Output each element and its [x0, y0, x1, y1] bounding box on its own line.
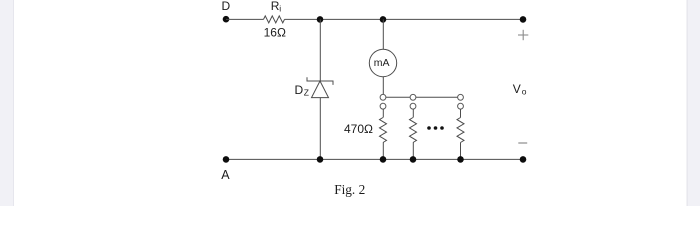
load resistor 1, 470 ohm — [344, 109, 387, 159]
svg-text:D: D — [222, 0, 231, 13]
svg-text:Fig. 2: Fig. 2 — [334, 182, 365, 197]
socket terminal 3 (bus) — [458, 94, 464, 100]
plug terminal 2 (load resistor top) — [410, 103, 416, 109]
svg-text:16Ω: 16Ω — [264, 25, 286, 39]
junction: bottom of load resistor 2 — [410, 156, 417, 163]
minus sign — [518, 142, 527, 144]
svg-text:o: o — [522, 87, 527, 97]
svg-text:mA: mA — [374, 57, 390, 69]
wire: meter branch upper segment — [382, 19, 384, 49]
wire top: resistor Ri to top-right terminal — [285, 18, 524, 20]
svg-text:D: D — [295, 83, 304, 97]
socket terminal 1 (bus) — [380, 94, 386, 100]
label Vo — [513, 82, 527, 97]
node D — [222, 0, 231, 22]
plus sign — [518, 30, 528, 40]
wire: zener branch upper segment — [319, 19, 321, 81]
junction: top of meter branch — [380, 16, 387, 23]
zener diode DZ — [295, 77, 334, 97]
ammeter mA — [369, 49, 396, 76]
junction: bottom of load resistor 1 — [380, 156, 387, 163]
svg-text:i: i — [279, 4, 281, 14]
load resistor 2 — [410, 109, 417, 159]
junction: bottom of load resistor n — [457, 156, 464, 163]
socket terminal 2 (bus) — [410, 94, 416, 100]
resistor Ri 16 ohm — [264, 0, 286, 39]
ellipsis between load resistors — [427, 126, 444, 130]
svg-text:Z: Z — [304, 88, 309, 98]
bottom wire: A to bottom-right terminal — [226, 158, 523, 160]
node A — [221, 156, 230, 182]
junction: bottom of zener branch — [317, 156, 324, 163]
caption Fig. 2 — [334, 182, 365, 197]
top-right output terminal — [520, 16, 527, 23]
plug terminal 3 (load resistor top) — [458, 103, 464, 109]
bottom-right output terminal — [520, 156, 527, 163]
load resistor n — [457, 109, 464, 159]
svg-text:V: V — [513, 82, 521, 96]
wire top-left: D to resistor Ri — [226, 18, 264, 20]
svg-text:A: A — [221, 168, 230, 182]
junction: top of zener branch — [317, 16, 324, 23]
plug terminal 1 (load resistor top) — [380, 103, 386, 109]
wire: zener branch lower segment — [319, 98, 321, 160]
svg-text:470Ω: 470Ω — [344, 122, 373, 136]
load bus wire — [386, 96, 458, 98]
wire: meter bottom to load bus — [382, 77, 384, 95]
